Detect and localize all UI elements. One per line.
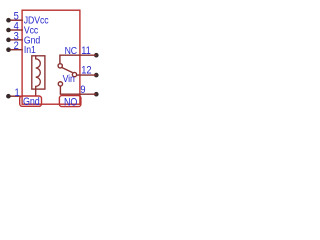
svg-text:Vin: Vin [63, 73, 75, 85]
svg-text:2: 2 [14, 40, 19, 52]
svg-text:NO: NO [64, 97, 78, 109]
svg-text:Gnd: Gnd [23, 96, 40, 108]
svg-text:In1: In1 [24, 44, 36, 56]
svg-text:1: 1 [15, 87, 20, 99]
svg-text:NC: NC [65, 45, 78, 57]
svg-text:12: 12 [81, 65, 92, 77]
svg-text:11: 11 [81, 45, 91, 57]
svg-text:9: 9 [80, 84, 85, 96]
